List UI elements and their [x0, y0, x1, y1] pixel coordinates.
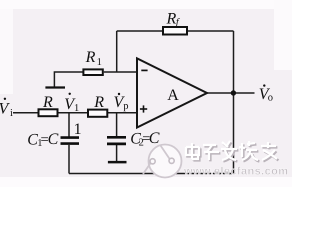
ground (R1) — [45, 86, 65, 88]
label R1 — [85, 49, 102, 68]
resistor R (second) — [88, 110, 107, 117]
svg-text:R: R — [93, 94, 104, 111]
wire C1 bottom down — [68, 145, 70, 174]
op-amp - sign — [141, 69, 147, 71]
svg-text:R: R — [166, 10, 177, 27]
op-amp + sign — [140, 105, 147, 112]
ground (C2) — [108, 161, 127, 164]
svg-text:A: A — [167, 87, 179, 104]
wire node V1 down to C1 — [68, 113, 70, 138]
resistor Rf — [163, 27, 187, 35]
wire Vi to R — [13, 112, 38, 114]
wire right vertical feedback — [233, 31, 235, 174]
resistor R (first, input) — [39, 109, 58, 116]
svg-text:www.elecfans.com: www.elecfans.com — [183, 166, 288, 178]
svg-text:C: C — [48, 131, 59, 148]
wire R to op-amp + input (node Vp) — [107, 112, 138, 114]
watermark text 电子发烧友 (hand-drawn strokes) — [186, 141, 278, 161]
label Rf — [166, 10, 180, 28]
resistor R1 — [83, 69, 102, 75]
svg-text:o: o — [268, 92, 273, 103]
svg-text:R: R — [42, 94, 53, 111]
wire node at - input up to Rf — [116, 31, 118, 72]
wire op-amp output to Vo — [206, 92, 255, 94]
watermark logo (elecfans circle) — [143, 145, 182, 178]
label node Vp — [114, 93, 129, 112]
wire bottom feedback — [69, 173, 234, 175]
svg-text:C: C — [149, 130, 160, 147]
wire Rf to right vertical — [187, 30, 234, 32]
capacitor C2 plates — [107, 137, 126, 144]
svg-text:1: 1 — [74, 121, 82, 138]
label node V1 — [64, 93, 79, 115]
capacitor C1 plates — [61, 138, 80, 144]
svg-text:i: i — [10, 108, 13, 119]
label C1=C — [27, 131, 58, 149]
wire node Vp down to C2 — [116, 113, 118, 137]
label Vi — [0, 98, 13, 119]
svg-text:p: p — [123, 101, 128, 112]
svg-text:R: R — [85, 49, 96, 66]
label C2=C — [130, 130, 160, 148]
svg-text:1: 1 — [74, 103, 79, 114]
op-amp A — [137, 58, 207, 127]
wire C2 bottom to ground — [116, 145, 118, 162]
svg-text:1: 1 — [97, 57, 102, 68]
label Vo — [259, 84, 273, 103]
wire R to R (node V1) — [58, 112, 88, 114]
wire R1 to op-amp - input — [104, 71, 138, 73]
wire top left to Rf — [117, 30, 163, 32]
node output junction — [231, 90, 236, 95]
wire R1 left to ground — [54, 72, 82, 87]
